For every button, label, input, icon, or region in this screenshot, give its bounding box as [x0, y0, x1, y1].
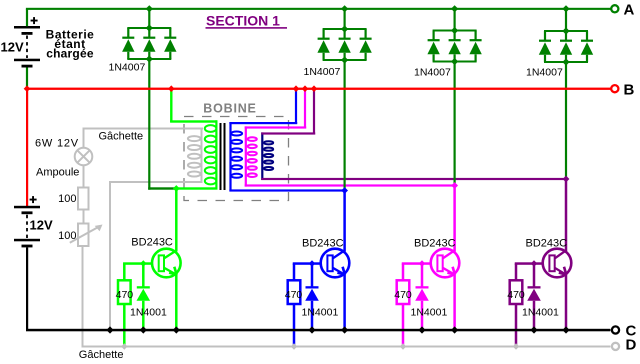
wire: blue winding bottom to Q2 collector: [229, 189, 345, 191]
wire: bus line A (green): [26, 8, 611, 10]
svg-text:BOBINE: BOBINE: [203, 101, 256, 115]
battery B2 plus sign: [30, 199, 37, 201]
diode 1N4001 stage 4: [533, 264, 536, 287]
diode group 1 bottom rail: [127, 58, 171, 60]
junction dots diode group 2: [341, 5, 348, 12]
junction dot purple winding / line B: [311, 85, 318, 92]
wire: between 100 resistors: [83, 210, 85, 224]
wire: collector stage 3: [453, 186, 456, 252]
wire: transformer coupling dashed box: [184, 117, 289, 201]
junction dots diode group 3: [451, 5, 458, 12]
svg-text:470: 470: [507, 289, 525, 301]
junction dot blue winding / line B: [293, 85, 300, 92]
diode 1N4007 (3.3): [475, 31, 477, 40]
wire: line B down to battery B2: [26, 89, 28, 207]
wire: base rail stage 2: [293, 262, 322, 265]
transformer T1 navy winding: [261, 132, 263, 180]
wire: diode group 4 down: [565, 62, 567, 179]
junction dot primary / line B: [168, 85, 175, 92]
diode 1N4007 (3.1): [433, 31, 435, 40]
svg-text:1N4001: 1N4001: [130, 306, 167, 318]
svg-text:6W 12V: 6W 12V: [35, 138, 79, 150]
wire: resistor 470 top stage 4: [515, 264, 518, 281]
junction dot battery B1 / line B: [24, 85, 31, 92]
wire: collector stage 1: [175, 190, 178, 252]
node A terminal: [611, 5, 618, 12]
resistor 470 stage 1: [118, 280, 131, 304]
svg-text:B: B: [624, 82, 635, 99]
transformer T1 core: [220, 123, 222, 190]
wire: line A to diode group 3: [454, 9, 456, 31]
diode 1N4007 (2.1): [323, 29, 325, 38]
wire: resistor 470 bottom to line D stage 2: [293, 304, 296, 346]
junction dot base/diode stage 2: [309, 260, 315, 266]
transistor Q4 BD243C: [543, 249, 572, 278]
diode 1N4007 (1.3): [169, 28, 171, 37]
wire: lamp top to transformer gray winding: [83, 128, 85, 149]
wire: blue winding top to line B: [229, 122, 297, 124]
wire: diode group 1 jog to Q1 collector junction: [148, 187, 176, 189]
transistor Q1 BD243C: [152, 249, 181, 278]
transistor Q2 BD243C: [321, 249, 350, 278]
wire: resistor 470 bottom to line D stage 3: [402, 304, 405, 346]
wire: battery B1 top to line A: [26, 9, 28, 26]
wire: green winding bottom to Q1 collector junction: [175, 187, 218, 189]
junction dots diode group 4: [562, 5, 569, 12]
svg-text:12V: 12V: [1, 40, 24, 55]
wire: base rail stage 4: [515, 262, 544, 265]
resistor 470 stage 2: [288, 280, 301, 304]
junction dots on line D: [121, 343, 127, 349]
wire: emitter stage 4 to line C: [565, 274, 568, 331]
diode group 2: 3x 1N4007 top rail: [323, 28, 367, 30]
diode group 2 bottom rail: [323, 59, 367, 61]
svg-text:470: 470: [285, 289, 303, 301]
wire: bus line B (red): [26, 88, 611, 90]
svg-text:470: 470: [116, 289, 134, 301]
wire: base rail stage 1: [123, 262, 153, 265]
svg-text:Ampoule: Ampoule: [36, 166, 79, 178]
junction dot base/diode stage 3: [419, 260, 425, 266]
battery B1 12V: [14, 26, 40, 29]
lamp L1 (Ampoule 6W 12V): [75, 148, 93, 166]
junction dot green winding bottom / Q1 collector: [173, 185, 180, 192]
wire: diode group 3 down: [454, 62, 456, 186]
svg-text:Gâchette: Gâchette: [99, 130, 144, 142]
junction dot blue winding bottom / Q2 collector: [341, 187, 348, 194]
diode group 4 bottom rail: [544, 61, 588, 63]
wire: resistor 470 top stage 2: [293, 264, 296, 281]
diode 1N4007 (2.2): [344, 29, 346, 38]
svg-text:1N4001: 1N4001: [411, 306, 448, 318]
wire: collector stage 2: [343, 191, 346, 252]
svg-text:SECTION 1: SECTION 1: [206, 13, 280, 29]
svg-text:1N4007: 1N4007: [526, 66, 563, 78]
svg-text:1N4007: 1N4007: [109, 62, 146, 74]
wire: diode group 1 down: [148, 59, 150, 190]
diode group 1: 3x 1N4007 top rail: [127, 27, 171, 29]
junction dot magenta winding bottom / Q3 collector: [451, 182, 458, 189]
junction dots on line C: [106, 326, 113, 333]
wire: base rail stage 3: [402, 262, 432, 265]
svg-text:D: D: [626, 337, 637, 354]
svg-text:1N4001: 1N4001: [522, 306, 559, 318]
wire: potentiometer bottom down to gachette line D: [82, 246, 84, 347]
node B terminal: [611, 85, 618, 92]
transformer T1 blue winding: [229, 122, 231, 191]
wire: diode group 2 down: [344, 60, 346, 191]
wire: bus line C (black): [26, 329, 611, 332]
transformer T1 green winding: [215, 120, 217, 189]
svg-text:BD243C: BD243C: [302, 237, 344, 249]
diode group 3: 3x 1N4007 top rail: [433, 30, 477, 32]
wire: emitter stage 2 to line C: [343, 274, 346, 331]
potentiometer 100 (variable): [78, 224, 89, 247]
svg-text:100: 100: [58, 230, 76, 242]
junction dot magenta winding / line B: [302, 85, 309, 92]
wire: line A to diode group 4: [565, 9, 567, 31]
node C terminal: [612, 326, 619, 333]
svg-text:BD243C: BD243C: [414, 237, 456, 249]
diode 1N4007 (1.2): [148, 28, 150, 37]
svg-text:470: 470: [394, 289, 412, 301]
transistor Q3 BD243C: [431, 249, 460, 278]
resistor 470 stage 4: [510, 280, 523, 304]
diode group 4: 3x 1N4007 top rail: [544, 30, 588, 32]
diode 1N4007 (1.1): [127, 28, 129, 37]
wire: line A to diode group 1: [148, 9, 150, 28]
wire: collector stage 4: [565, 179, 568, 252]
wire: purple winding top to line B: [261, 132, 315, 134]
wire: gray return from transformer bottom to line C: [109, 181, 203, 183]
diode 1N4007 (2.3): [365, 29, 367, 38]
wire: magenta winding bottom to Q3 collector: [245, 184, 457, 186]
battery B1 plus sign: [31, 20, 38, 22]
wire: purple winding bottom to Q4 collector: [261, 178, 567, 180]
svg-text:BD243C: BD243C: [526, 237, 568, 249]
transformer T1 gray trigger winding: [201, 128, 203, 183]
diode 1N4001 stage 2: [311, 264, 314, 287]
svg-text:BD243C: BD243C: [131, 236, 173, 248]
wire: resistor 470 bottom to line D stage 1: [123, 304, 126, 346]
diode 1N4001 stage 3: [421, 264, 424, 287]
resistor 470 stage 3: [397, 280, 410, 304]
diode 1N4007 (3.2): [454, 31, 456, 40]
svg-text:A: A: [624, 1, 635, 18]
battery B2 12V: [14, 206, 40, 209]
wire: emitter stage 1 to line C: [175, 274, 178, 331]
wire: line A to diode group 2: [344, 9, 346, 29]
wire: battery B2 bottom to line C: [26, 247, 28, 330]
wire: emitter stage 3 to line C: [453, 274, 456, 331]
wire: bus line D gachette (gray): [82, 346, 611, 348]
junction dot base/diode stage 1: [140, 260, 146, 266]
diode 1N4007 (4.3): [586, 31, 588, 40]
wire: magenta winding top to line B: [245, 126, 307, 128]
svg-text:Gâchette: Gâchette: [79, 349, 124, 361]
wire: lamp bottom to resistor: [83, 165, 85, 188]
wire: resistor 470 top stage 1: [123, 264, 126, 281]
junction dot base/diode stage 4: [531, 260, 537, 266]
svg-text:1N4001: 1N4001: [302, 306, 339, 318]
resistor 100 (fixed): [78, 188, 89, 210]
svg-text:1N4007: 1N4007: [304, 66, 341, 78]
diode 1N4007 (4.1): [544, 31, 546, 40]
wire: resistor 470 bottom to line D stage 4: [515, 304, 518, 346]
wire: bright green primary from line B down into bobine: [170, 89, 172, 122]
svg-text:chargée: chargée: [46, 47, 94, 61]
diode group 3 bottom rail: [433, 61, 477, 63]
svg-text:100: 100: [58, 193, 76, 205]
diode 1N4007 (4.2): [565, 31, 567, 40]
transformer T1 magenta winding: [245, 126, 247, 186]
wire: resistor 470 top stage 3: [402, 264, 405, 281]
diode 1N4001 stage 1: [142, 264, 145, 287]
svg-text:1N4007: 1N4007: [414, 66, 451, 78]
junction dots diode group 1: [146, 5, 153, 12]
junction dot purple winding bottom / Q4 collector: [563, 176, 570, 183]
node D terminal: [612, 343, 619, 350]
wire: battery B1 bottom to line B: [26, 68, 28, 89]
svg-text:12V: 12V: [30, 218, 53, 233]
